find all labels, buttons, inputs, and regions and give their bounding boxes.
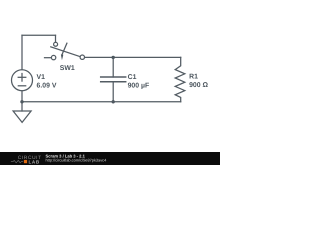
wire switch top lead bbox=[55, 35, 57, 42]
node bottom junction at C1 bbox=[112, 100, 115, 103]
label C1 value 900 uF bbox=[128, 82, 150, 89]
wire bottom horizontal bbox=[22, 101, 181, 103]
resistor R1 bbox=[175, 57, 185, 101]
node top junction at C1 bbox=[112, 56, 115, 59]
label SW1 bbox=[60, 65, 75, 72]
footer caption title bbox=[46, 153, 86, 158]
svg-text:SW1: SW1 bbox=[60, 65, 75, 72]
svg-text:C1: C1 bbox=[128, 74, 137, 81]
svg-text:900 Ω: 900 Ω bbox=[189, 82, 208, 89]
svg-text:R1: R1 bbox=[189, 74, 198, 81]
label C1 bbox=[128, 74, 137, 81]
label R1 value 900 ohm bbox=[189, 82, 208, 89]
label V1 bbox=[37, 74, 46, 81]
svg-text:6.09 V: 6.09 V bbox=[37, 82, 57, 89]
svg-text:http://circuitlab.com/c/5e87pk: http://circuitlab.com/c/5e87pk3avc4 bbox=[46, 158, 108, 163]
wire from C1 node to top-right corner bbox=[113, 56, 181, 58]
label R1 bbox=[189, 74, 198, 81]
svg-text:LAB: LAB bbox=[29, 159, 40, 164]
switch SW1 bbox=[45, 42, 85, 60]
wire from SW1 to C1 node bbox=[85, 56, 114, 58]
node bottom junction at V1/ground bbox=[20, 100, 23, 103]
wire left vertical to V1 bbox=[21, 35, 23, 69]
footer bar bbox=[0, 152, 220, 165]
wire top-left horizontal bbox=[22, 34, 56, 36]
ground bbox=[13, 102, 31, 123]
footer caption url bbox=[46, 158, 108, 163]
voltage source V1 bbox=[12, 70, 33, 102]
capacitor C1 bbox=[101, 57, 126, 101]
CircuitLab logo bbox=[11, 155, 42, 164]
label V1 value 6.09 V bbox=[37, 82, 57, 89]
svg-text:900 µF: 900 µF bbox=[128, 82, 150, 89]
svg-text:V1: V1 bbox=[37, 74, 46, 81]
